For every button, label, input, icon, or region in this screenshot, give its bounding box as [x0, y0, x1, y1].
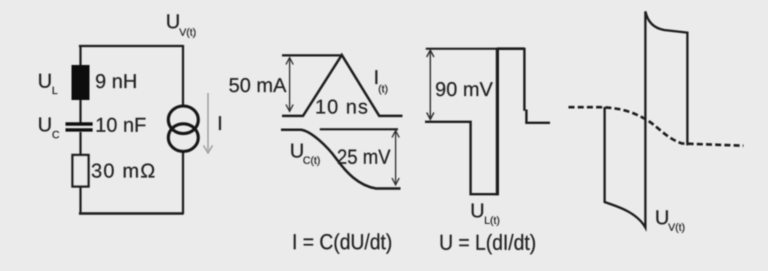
label 50 mA [229, 78, 286, 92]
wire left branch lower [79, 186, 81, 214]
waveform U_L(t) top reference line [426, 48, 498, 50]
waveform U_V(t) solid spike trace [605, 11, 688, 227]
waveform U_C(t) s-curve trace [281, 130, 401, 189]
wire right branch upper [182, 45, 184, 106]
wire bottom of loop [79, 212, 184, 215]
current direction arrow [204, 93, 213, 153]
label U_V(t) [656, 210, 684, 233]
waveform U_L(t) rising edge thick [496, 48, 499, 196]
resistor 30 mOhm body [73, 155, 89, 187]
current source I circles [168, 106, 198, 151]
wire right branch lower [182, 151, 184, 214]
formula U = L(dI/dt) [441, 234, 535, 254]
dimension arrow 50 mA [286, 58, 293, 112]
value 30 mOhm [92, 164, 155, 178]
wire left branch middle [79, 132, 81, 156]
waveform I(t) triangle trace [282, 55, 403, 116]
waveform U_L(t) zero level and negative pulse [425, 122, 498, 194]
waveform U_C(t) top reference line [320, 128, 398, 130]
wire top of loop [79, 45, 183, 47]
capacitor 10 nF plates [66, 124, 93, 130]
label 25 mV [338, 149, 391, 164]
dimension arrow 90 mV [427, 50, 434, 119]
label 10 ns [317, 100, 368, 114]
label 90 mV [436, 82, 493, 96]
dimension arrow 25 mV [392, 131, 399, 185]
wire left branch upper [79, 45, 81, 123]
value 9 nH [96, 74, 136, 88]
label U_C [39, 118, 59, 139]
label U_L [39, 74, 57, 94]
waveform I(t) top reference line [282, 54, 342, 56]
waveform U_L(t) falling edge with jog [524, 48, 550, 123]
label U_L(t) [472, 204, 500, 227]
formula I = C(dU/dt) [294, 233, 391, 253]
label I source current [219, 116, 221, 130]
waveform U_V(t) dashed droop curve [569, 107, 744, 146]
inductor 9 nH body [72, 65, 90, 100]
node label U_V(t) [167, 14, 195, 38]
value 10 nF [97, 118, 146, 132]
label U_C(t) [291, 144, 319, 166]
label I(t) [375, 70, 387, 94]
waveform U_L(t) positive pulse top [497, 47, 525, 50]
